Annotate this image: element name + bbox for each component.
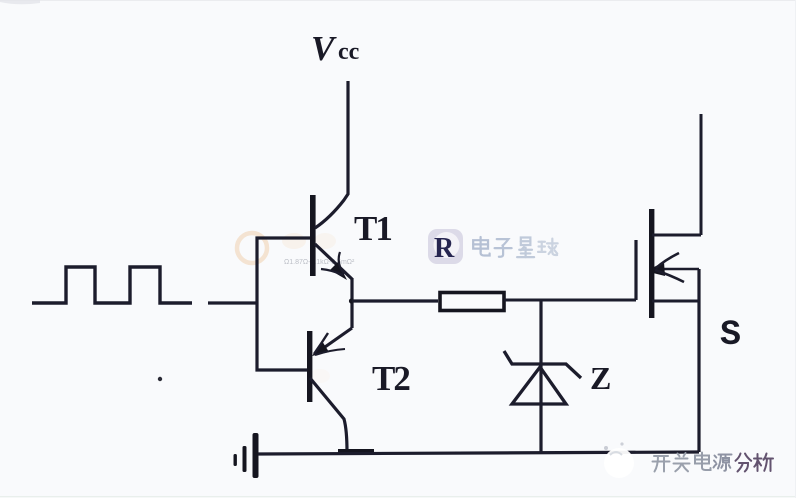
svg-text:Z: Z: [590, 360, 611, 396]
zener diode Z: [504, 351, 581, 404]
wire input segment to base bus: [208, 301, 258, 304]
wire zener branch vertical: [539, 300, 542, 452]
watermark bottom text: [653, 453, 774, 472]
svg-text:cc: cc: [338, 39, 360, 65]
svg-text:V: V: [311, 29, 337, 68]
svg-text:T1: T1: [354, 209, 391, 248]
svg-text:R: R: [434, 233, 455, 264]
svg-text:S: S: [720, 315, 741, 355]
watermark orange ring (electron star faint): [237, 233, 336, 383]
wire ground rail: [258, 452, 699, 454]
stray dot: [158, 377, 162, 381]
mosfet S: [636, 209, 701, 318]
resistor R: [440, 293, 504, 311]
transistor T1: [310, 81, 352, 280]
watermark bottom logo: [604, 442, 634, 478]
wire resistor to gate: [504, 299, 636, 302]
wire output node to resistor: [352, 299, 438, 302]
svg-text:Ω1.87Ω-4.1kΩ-0.5mΩ²: Ω1.87Ω-4.1kΩ-0.5mΩ²: [284, 259, 355, 266]
svg-text:T2: T2: [372, 359, 409, 398]
transistor T2: [307, 328, 374, 452]
wire source down to ground: [697, 269, 700, 452]
watermark center text: [473, 237, 557, 257]
watermark center badge R: [428, 229, 463, 264]
input square wave: [32, 267, 192, 303]
ground: [234, 433, 259, 478]
wire drain up: [700, 114, 703, 235]
node emitter junction: [350, 278, 353, 328]
wire base bus vertical with T1/T2 base taps: [257, 238, 310, 370]
